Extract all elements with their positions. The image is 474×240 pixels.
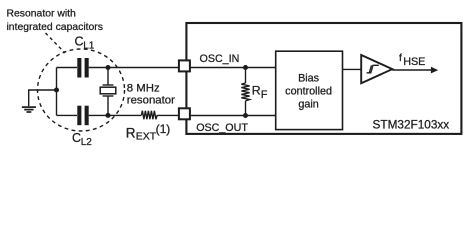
- label CL1: [75, 35, 95, 52]
- svg-text:resonator: resonator: [127, 95, 175, 107]
- wire: top middle segment: [89, 67, 178, 69]
- capacitor CL1: [77, 58, 88, 78]
- bias controlled gain box U1: [276, 51, 343, 129]
- node: crystal bottom junction: [106, 113, 111, 118]
- node: RF bottom junction: [243, 113, 248, 118]
- ground: [22, 90, 57, 112]
- svg-text:gain: gain: [298, 98, 318, 110]
- resistor RF: [241, 68, 249, 116]
- crystal X1 (8 MHz resonator): [100, 68, 116, 116]
- svg-text:Bias: Bias: [298, 73, 320, 85]
- label REXT(1): [126, 122, 171, 143]
- svg-text:OSC_OUT: OSC_OUT: [196, 122, 248, 134]
- resistor REXT: [142, 111, 158, 120]
- svg-text:integrated capacitors: integrated capacitors: [7, 22, 103, 33]
- svg-text:STM32F103xx: STM32F103xx: [373, 117, 450, 131]
- label: 8 MHz resonator: [127, 82, 175, 106]
- svg-text:OSC_IN: OSC_IN: [200, 53, 240, 65]
- wire: OSC_OUT to bias box: [191, 115, 277, 117]
- pin OSC_IN: [179, 60, 190, 71]
- svg-text:C: C: [72, 131, 81, 145]
- wire: left rail: [56, 68, 58, 116]
- svg-text:EXT: EXT: [136, 131, 157, 143]
- svg-text:f: f: [399, 52, 402, 64]
- node: crystal top junction: [106, 65, 111, 70]
- wire: top left segment: [57, 67, 78, 69]
- wire: output with arrow to fHSE: [392, 67, 438, 74]
- capacitor CL2: [77, 106, 88, 126]
- pin OSC_OUT: [179, 108, 190, 119]
- svg-text:R: R: [252, 83, 261, 97]
- label RF: [252, 83, 268, 101]
- wire: REXT to OSC_OUT pin: [157, 114, 178, 116]
- wire: OSC_IN to bias box: [191, 67, 277, 69]
- svg-text:C: C: [75, 35, 84, 49]
- schmitt trigger buffer: [361, 55, 392, 83]
- svg-text:L2: L2: [81, 137, 93, 148]
- svg-text:R: R: [126, 126, 136, 141]
- svg-text:L1: L1: [83, 41, 95, 52]
- svg-text:8 MHz: 8 MHz: [127, 82, 160, 94]
- leader line from note to resonator group: [46, 33, 66, 53]
- dashed enclosure ellipse around resonator group: [38, 49, 125, 131]
- svg-text:controlled: controlled: [285, 85, 332, 97]
- node: RF top junction: [243, 65, 248, 70]
- svg-text:(1): (1): [156, 122, 171, 136]
- wire: bottom middle segment: [89, 114, 142, 116]
- wire: bottom left segment: [57, 114, 78, 116]
- label fHSE: [399, 52, 425, 68]
- note: Resonator with integrated capacitors: [7, 9, 103, 33]
- svg-text:HSE: HSE: [403, 56, 425, 68]
- node: ground junction: [54, 88, 59, 93]
- svg-text:Resonator with: Resonator with: [7, 9, 77, 20]
- STM32F103xx box: [186, 23, 461, 134]
- wire: bias box to schmitt buffer: [342, 68, 361, 70]
- svg-text:F: F: [261, 89, 268, 101]
- label CL2: [72, 131, 92, 148]
